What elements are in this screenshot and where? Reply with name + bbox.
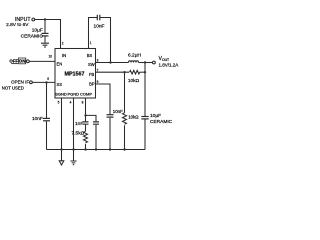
svg-text:9: 9 [97,80,99,84]
svg-text:10µF: 10µF [150,113,161,119]
svg-text:5: 5 [58,101,60,105]
svg-text:BS: BS [87,53,93,58]
svg-text:2: 2 [62,41,64,45]
svg-text:7: 7 [97,68,99,72]
svg-text:MP1567: MP1567 [64,71,84,77]
svg-text:FB: FB [89,72,95,77]
svg-text:2.8V to 6V: 2.8V to 6V [6,22,29,28]
svg-text:1.8V/1.2A: 1.8V/1.2A [159,62,179,67]
svg-text:ON: ON [19,59,26,64]
svg-text:SW: SW [88,62,95,67]
svg-text:CERAMIC: CERAMIC [21,33,44,39]
svg-text:BP: BP [89,82,95,87]
svg-text:3: 3 [97,59,99,63]
svg-text:VOUT: VOUT [159,56,170,62]
svg-text:PGND: PGND [68,91,80,96]
svg-text:6: 6 [47,77,49,81]
svg-text:4: 4 [70,101,72,105]
svg-text:IN: IN [62,53,66,58]
svg-text:SS: SS [57,82,63,87]
svg-text:SGND: SGND [55,91,67,96]
svg-text:10nF: 10nF [94,23,105,29]
svg-text:7.5kΩ: 7.5kΩ [72,131,85,137]
svg-text:OPEN IF: OPEN IF [11,79,29,84]
svg-text:10: 10 [48,55,52,59]
svg-text:EN: EN [57,61,63,66]
svg-text:8: 8 [82,101,84,105]
svg-text:1: 1 [90,41,92,45]
svg-text:COMP: COMP [80,91,92,96]
svg-text:10nF: 10nF [113,109,123,114]
svg-text:10kΩ: 10kΩ [128,114,139,119]
svg-text:10kΩ: 10kΩ [128,78,140,84]
svg-text:10µF: 10µF [32,28,43,34]
svg-text:6.2µH: 6.2µH [128,52,141,58]
svg-text:OFF: OFF [9,59,18,64]
svg-text:CERAMIC: CERAMIC [150,119,173,125]
svg-text:10nF: 10nF [32,116,43,122]
svg-text:1nF: 1nF [75,121,83,127]
svg-text:NOT USED: NOT USED [2,85,24,90]
